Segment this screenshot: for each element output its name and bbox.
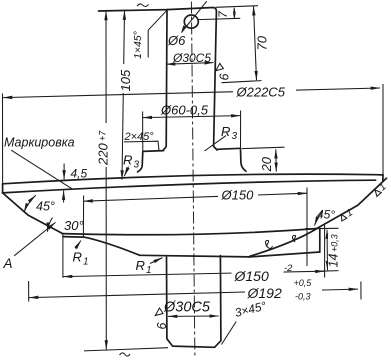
svg-text:A: A (3, 256, 13, 271)
svg-text:30°: 30° (64, 218, 84, 233)
svg-text:220: 220 (96, 143, 111, 166)
svg-text:7: 7 (216, 10, 230, 18)
svg-text:R: R (136, 258, 145, 273)
svg-text:Ø150: Ø150 (221, 188, 255, 203)
svg-text:3×45°: 3×45° (233, 299, 267, 320)
svg-text:3: 3 (232, 131, 238, 142)
svg-text:45°: 45° (317, 208, 335, 222)
svg-text:+0,3: +0,3 (330, 234, 340, 252)
svg-text:-2: -2 (284, 263, 293, 274)
svg-text:-0,3: -0,3 (295, 292, 311, 302)
svg-text:1: 1 (83, 257, 89, 268)
svg-text:3: 3 (134, 160, 140, 171)
svg-text:Ø192: Ø192 (247, 285, 282, 301)
svg-text:+0,5: +0,5 (294, 278, 313, 288)
svg-text:14: 14 (327, 254, 341, 268)
svg-text:Ø222C5: Ø222C5 (236, 85, 286, 100)
svg-text:45°: 45° (36, 200, 55, 214)
svg-text:R: R (123, 153, 132, 168)
svg-text:Ø30C5: Ø30C5 (163, 300, 211, 316)
svg-text:Ø6: Ø6 (167, 33, 186, 48)
svg-text:Маркировка: Маркировка (4, 136, 75, 150)
svg-text:6: 6 (218, 74, 232, 81)
svg-text:6: 6 (155, 323, 169, 330)
svg-text:2×45°: 2×45° (124, 131, 155, 143)
svg-text:R: R (73, 250, 82, 265)
svg-text:Ø150: Ø150 (234, 268, 269, 284)
svg-text:Ø60-0,5: Ø60-0,5 (160, 103, 209, 118)
svg-text:Ø30C5: Ø30C5 (172, 51, 211, 65)
svg-text:+7: +7 (98, 130, 108, 141)
svg-text:1×45°: 1×45° (132, 31, 144, 59)
svg-text:4,5: 4,5 (71, 167, 88, 181)
svg-text:105: 105 (118, 69, 133, 91)
svg-text:20: 20 (259, 156, 274, 172)
svg-text:1: 1 (146, 265, 152, 276)
svg-text:R: R (221, 124, 230, 139)
svg-text:70: 70 (255, 35, 270, 50)
